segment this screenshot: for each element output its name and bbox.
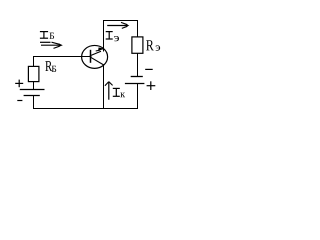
arrow IЭ shaft: [107, 25, 127, 27]
label I (of IБ): [40, 32, 48, 39]
wire emitter vertical up: [103, 21, 105, 52]
transistor VT1 body circle: [82, 45, 108, 68]
arrow IК shaft: [108, 82, 110, 100]
wire resistor to battery stub: [33, 82, 35, 90]
label I (of IК): [113, 88, 120, 96]
arrow IБ shaft: [41, 44, 60, 46]
transistor collector diagonal: [91, 57, 105, 65]
wire right column upper: [137, 21, 139, 38]
wire base horizontal: [33, 56, 92, 58]
label Б subscript (of RБ): [52, 66, 57, 72]
label Б subscript (of IБ): [49, 33, 54, 39]
wire battery to bottom rail: [33, 96, 35, 109]
transistor emitter arrowhead: [98, 47, 105, 50]
label R (of RЭ): [146, 40, 154, 50]
minus sign right: [145, 68, 153, 70]
resistor RЭ: [132, 37, 143, 53]
plus sign right: [147, 81, 156, 90]
wire battery right to bottom rail: [137, 84, 139, 109]
minus sign left: [17, 100, 22, 102]
bottom rail wire: [33, 108, 138, 110]
label I (of IЭ): [106, 32, 113, 39]
plus sign left: [15, 80, 23, 88]
label R (of RБ): [45, 61, 52, 71]
battery GB2 short plate (-): [131, 76, 143, 78]
battery GB2 long plate (+): [125, 83, 144, 85]
wire resistor to battery right: [137, 53, 139, 76]
resistor RБ: [28, 66, 39, 81]
label э subscript (of RЭ): [156, 45, 161, 50]
underline of IБ: [40, 41, 51, 43]
arrow IК head: [105, 82, 109, 86]
arrow IБ head: [59, 43, 63, 47]
arrow IЭ head: [126, 24, 129, 27]
battery GB1 short plate (-): [24, 95, 40, 97]
transistor base bar: [90, 50, 92, 63]
label э subscript (of IЭ): [114, 36, 119, 41]
wire collector vertical down: [103, 65, 105, 108]
top rail wire: [103, 20, 138, 22]
label к subscript (of IК): [120, 93, 125, 98]
wire left column vertical: [33, 57, 35, 67]
battery GB1 long plate (+): [20, 89, 45, 91]
transistor emitter diagonal: [90, 51, 101, 56]
